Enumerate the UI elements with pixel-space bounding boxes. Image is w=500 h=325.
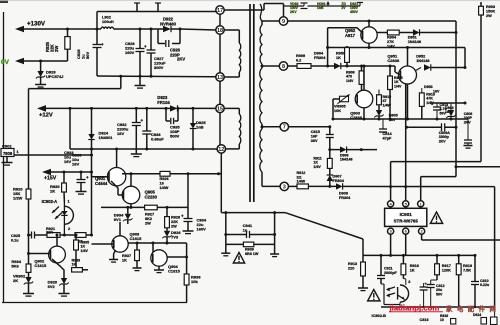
svg-text:16V: 16V [117,131,124,136]
svg-text:450V: 450V [350,10,359,14]
svg-text:C816: C816 [420,318,429,322]
svg-text:FR304: FR304 [314,56,326,60]
svg-text:R950: R950 [336,52,345,56]
svg-text:2V: 2V [341,6,346,10]
svg-text:IC902-B: IC902-B [372,313,387,318]
svg-text:1n: 1n [243,228,248,233]
svg-text:家电配件网: 家电配件网 [446,304,500,313]
svg-text:IC901: IC901 [400,212,413,217]
svg-text:1/4W: 1/4W [383,103,392,107]
svg-text:36V: 36V [311,139,318,143]
svg-text:1/2W: 1/2W [13,196,23,201]
svg-text:2W: 2W [486,14,492,18]
svg-text:C4544: C4544 [95,181,108,186]
svg-text:1K: 1K [50,189,55,194]
svg-text:1N4148: 1N4148 [416,59,429,63]
svg-text:6V2: 6V2 [48,284,56,289]
svg-text:8: 8 [282,64,285,70]
svg-text:27K: 27K [387,40,394,44]
svg-text:100uH: 100uH [102,19,114,24]
svg-text:6R8 1W: 6R8 1W [245,252,259,256]
svg-text:+: + [86,175,89,180]
svg-text:1N4001: 1N4001 [99,135,114,140]
svg-text:1/4V: 1/4V [81,249,89,253]
svg-text:8K2: 8K2 [145,217,152,221]
svg-text:220: 220 [348,266,354,270]
svg-text:1N4148: 1N4148 [340,158,353,162]
svg-text:50V: 50V [436,292,443,296]
svg-text:16P: 16P [311,134,318,138]
svg-text:5K6: 5K6 [11,264,19,269]
svg-text:9V1: 9V1 [114,217,122,222]
svg-text:2KV: 2KV [439,139,447,143]
svg-text:D814: D814 [473,313,481,317]
svg-text:R926: R926 [160,177,169,181]
svg-text:FR304: FR304 [333,179,345,183]
svg-text:2: 2 [68,227,70,231]
svg-text:16V: 16V [72,162,79,167]
svg-text:D905: D905 [389,114,398,118]
svg-text:3: 3 [283,184,286,190]
svg-text:D952: D952 [416,55,425,59]
svg-text:1/4V: 1/4V [346,79,354,83]
svg-text:R928: R928 [171,216,180,220]
svg-text:+15V: +15V [44,176,57,182]
svg-text:R913: R913 [348,262,357,266]
svg-text:1/4V: 1/4V [387,44,395,48]
svg-text:3: 3 [408,280,410,284]
svg-text:C815: C815 [311,130,320,134]
svg-text:2W: 2W [54,46,59,52]
svg-text:1/4V: 1/4V [394,84,402,88]
svg-text:7V3: 7V3 [171,235,179,240]
svg-text:50V: 50V [85,52,90,59]
svg-text:R937: R937 [122,254,131,258]
svg-text:7.5K: 7.5K [463,268,471,272]
svg-text:22K: 22K [171,220,178,224]
svg-text:0.68uF: 0.68uF [151,137,164,142]
svg-text:0.1u: 0.1u [11,238,19,242]
svg-text:+130V: +130V [27,21,46,28]
svg-text:+: + [181,214,184,219]
svg-text:18: 18 [217,28,223,34]
svg-text:+: + [141,118,144,123]
svg-text:0.22u: 0.22u [480,283,489,287]
svg-text:2KV: 2KV [290,10,297,14]
svg-text:FR304: FR304 [339,196,351,200]
svg-text:NVR460: NVR460 [160,21,176,26]
svg-text:2W: 2W [145,221,151,225]
svg-text:47pF: 47pF [383,136,393,140]
svg-text:18V: 18V [445,110,452,114]
svg-text:R917: R917 [442,264,451,268]
svg-text:R903: R903 [486,5,495,9]
svg-text:R818: R818 [463,264,472,268]
svg-text:2K: 2K [13,278,18,283]
svg-text:R927: R927 [145,213,154,217]
svg-text:16V: 16V [64,159,71,164]
svg-text:300V: 300V [154,65,164,70]
svg-text:D953: D953 [424,85,433,89]
svg-text:D904: D904 [314,52,324,56]
svg-text:12: 12 [218,147,224,153]
svg-text:160V: 160V [197,227,207,232]
svg-text:C925: C925 [11,234,20,238]
svg-text:FR104: FR104 [157,100,170,105]
svg-text:22K: 22K [46,231,53,235]
svg-text:1K: 1K [336,56,341,60]
svg-text:150K: 150K [486,9,495,13]
svg-text:7809: 7809 [3,151,13,156]
svg-text:1nB: 1nB [317,6,324,10]
svg-text:6.2: 6.2 [296,58,301,62]
svg-text:15: 15 [217,106,223,112]
svg-text:D951: D951 [408,36,417,40]
svg-text:1/4V: 1/4V [313,165,321,169]
svg-text:13: 13 [217,75,223,81]
svg-text:1/4W: 1/4W [160,186,169,190]
svg-text:C902: C902 [2,144,12,149]
svg-text:C814: C814 [383,132,393,136]
svg-text:160V: 160V [125,50,135,55]
svg-text:120K: 120K [442,268,451,272]
svg-text:+: + [101,42,104,47]
svg-text:+12V: +12V [39,113,53,119]
svg-text:C1815: C1815 [130,236,143,241]
svg-text:1: 1 [17,150,19,154]
svg-text:500V: 500V [170,134,180,139]
svg-text:1K: 1K [122,258,127,262]
svg-text:+: + [144,44,147,49]
svg-text:10K: 10K [334,109,341,113]
svg-text:1nB: 1nB [196,125,204,130]
svg-text:D908: D908 [339,192,348,196]
svg-text:9: 9 [282,19,285,25]
svg-text:C1815: C1815 [168,269,181,274]
svg-text:VR905: VR905 [334,105,346,109]
svg-text:1N4148: 1N4148 [408,40,421,44]
svg-text:IC902-A: IC902-A [42,199,58,204]
svg-text:C2838: C2838 [387,58,400,63]
svg-text:2000pF: 2000pF [384,271,397,275]
svg-text:7: 7 [283,125,286,131]
svg-text:STR-W6765: STR-W6765 [394,218,419,223]
svg-text:2KV: 2KV [464,120,472,124]
svg-text:C2230: C2230 [145,194,158,199]
svg-text:D907: D907 [333,175,342,179]
svg-text:17: 17 [217,8,223,14]
svg-text:10k: 10k [191,279,198,284]
svg-text:UPC574J: UPC574J [46,74,63,79]
svg-text:R916: R916 [410,264,419,268]
svg-text:10: 10 [440,318,444,322]
svg-text:2W: 2W [171,224,177,228]
svg-text:0V: 0V [1,59,10,66]
svg-text:18: 18 [160,181,164,185]
svg-text:R904: R904 [387,36,397,40]
svg-text:C1815: C1815 [34,263,47,268]
svg-text:2KV: 2KV [177,57,185,62]
svg-text:jiadianpj.com: jiadianpj.com [389,304,440,313]
svg-text:A817: A817 [345,33,356,38]
svg-text:1/4W: 1/4W [297,180,306,184]
svg-text:R909: R909 [296,54,305,58]
svg-text:1K: 1K [410,268,415,272]
svg-text:16V: 16V [433,90,440,94]
svg-text:1K: 1K [72,263,77,267]
svg-text:1: 1 [68,200,70,204]
